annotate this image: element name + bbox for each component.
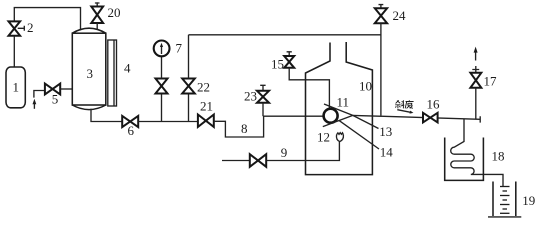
svg-text:24: 24 xyxy=(393,8,407,23)
svg-text:20: 20 xyxy=(108,5,121,20)
svg-text:6: 6 xyxy=(128,123,135,138)
svg-text:15: 15 xyxy=(271,57,284,72)
svg-text:18: 18 xyxy=(492,149,505,164)
svg-text:19: 19 xyxy=(522,193,535,208)
svg-text:5: 5 xyxy=(52,91,59,106)
svg-text:16: 16 xyxy=(427,97,441,112)
svg-text:11: 11 xyxy=(337,95,350,110)
svg-text:9: 9 xyxy=(281,145,288,160)
svg-text:10: 10 xyxy=(359,79,372,94)
svg-text:23: 23 xyxy=(244,89,257,104)
svg-text:3: 3 xyxy=(87,66,94,81)
svg-text:8: 8 xyxy=(241,121,248,136)
svg-text:21: 21 xyxy=(200,99,213,114)
svg-text:4: 4 xyxy=(124,61,131,76)
svg-text:17: 17 xyxy=(484,74,498,89)
svg-text:2: 2 xyxy=(27,20,34,35)
svg-text:1: 1 xyxy=(13,80,20,95)
svg-text:13: 13 xyxy=(379,124,392,139)
svg-text:7: 7 xyxy=(176,41,183,56)
svg-text:12: 12 xyxy=(317,129,330,144)
svg-text:14: 14 xyxy=(380,145,394,160)
svg-text:22: 22 xyxy=(197,80,210,95)
